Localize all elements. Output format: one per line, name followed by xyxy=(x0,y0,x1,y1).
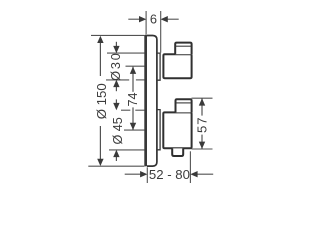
arrowhead O150 bottom (points down) xyxy=(97,159,103,166)
dim O150: top extension line (plate top) xyxy=(91,34,145,36)
dim 6: right extension line (collar front) xyxy=(160,11,162,53)
arrowhead O30 bottom (points up, outside) xyxy=(113,80,119,87)
arrowhead 74 top (points up) xyxy=(130,67,136,74)
dim 74: dimension line xyxy=(132,67,134,92)
dim 52-80: left tail line xyxy=(125,173,141,175)
top handle step cap xyxy=(175,43,191,55)
svg-text:74: 74 xyxy=(126,92,140,106)
svg-text:Ø 45: Ø 45 xyxy=(111,117,125,144)
dim 6: left extension line (wall plane) xyxy=(145,11,147,35)
dim 52-80: right tail line xyxy=(197,173,214,175)
top handle seam line xyxy=(176,45,191,47)
dim 57: dimension line xyxy=(201,98,203,115)
arrowhead 57 top (points up) xyxy=(199,98,205,105)
arrowhead O45 top (points down, outside) xyxy=(113,103,119,110)
svg-text:Ø30: Ø30 xyxy=(109,53,123,81)
dim 52-80: right extension line xyxy=(189,151,191,183)
dim O30: top outside tail xyxy=(115,42,117,46)
arrowhead 52-80 left (points right, outside) xyxy=(140,171,147,177)
dim 74: bottom extension line xyxy=(124,129,145,131)
dim 74: top extension stub xyxy=(126,65,145,67)
svg-text:6: 6 xyxy=(150,12,157,27)
escutcheon plate back bar (wall side, dark) xyxy=(144,35,147,167)
dim O150: dimension line lower segment xyxy=(99,126,101,160)
collar sleeve top knob xyxy=(157,53,160,80)
safety stop button below bottom handle xyxy=(172,148,183,156)
arrowhead 6 right (points left) xyxy=(161,16,168,22)
escutcheon plate outline (side view) xyxy=(147,36,157,167)
collar sleeve bottom knob xyxy=(157,110,160,150)
arrowhead O150 top (points up) xyxy=(97,36,103,43)
dim O30: top extension line xyxy=(107,52,145,54)
arrowhead 57 bottom (points down) xyxy=(199,142,205,149)
dim O30: bottom extension line left part xyxy=(106,79,129,81)
dim O45: bottom outside tail xyxy=(115,157,117,161)
arrowhead O30 top (points down, outside) xyxy=(113,46,119,53)
dim 52-80: left extension line xyxy=(146,167,148,183)
dim O30: bottom extension line right part xyxy=(136,79,145,81)
arrowhead 52-80 right (points left, outside) xyxy=(190,171,197,177)
dim 6: left tail line xyxy=(128,18,140,20)
svg-text:Ø 150: Ø 150 xyxy=(94,83,109,119)
bottom handle step cap xyxy=(176,99,192,112)
dim O150: bottom extension line (plate bottom) xyxy=(88,165,144,167)
dim O45: top extension line xyxy=(121,109,130,111)
arrowhead 6 left (points right) xyxy=(139,16,146,22)
top handle body xyxy=(163,54,191,78)
arrowhead 74 bottom (points down) xyxy=(130,123,136,130)
dim O150: dimension line upper segment xyxy=(99,43,101,77)
dim 6: right tail line xyxy=(167,18,178,20)
bottom handle seam line xyxy=(176,102,191,104)
bottom handle body xyxy=(163,112,191,148)
svg-text:57: 57 xyxy=(195,117,210,133)
dim 57: top extension line xyxy=(192,97,213,99)
dim O30: bottom outside tail xyxy=(115,87,117,91)
svg-text:52 - 80: 52 - 80 xyxy=(149,167,190,182)
arrowhead O45 bottom (points up, outside) xyxy=(113,150,119,157)
dim O45: bottom extension line xyxy=(109,149,145,151)
dim 57: bottom extension line xyxy=(192,148,213,150)
dim O45: top outside tail xyxy=(115,99,117,103)
